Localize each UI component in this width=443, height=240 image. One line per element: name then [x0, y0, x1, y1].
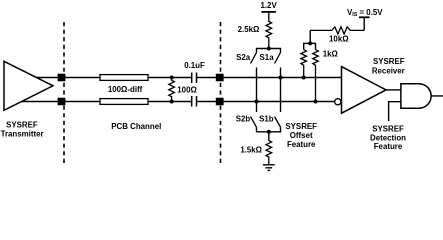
svg-text:100Ω-diff: 100Ω-diff — [108, 85, 143, 94]
switch S1a blade — [275, 53, 281, 64]
junction dot 1k left on top line — [302, 76, 306, 80]
label S2b — [236, 115, 251, 124]
label SYSREF Receiver — [372, 57, 405, 76]
svg-text:1.2V: 1.2V — [260, 1, 277, 10]
junction dot bottom bar — [267, 130, 271, 134]
wire receiver output to AND gate — [386, 89, 401, 91]
junction dot 100ohm top — [170, 76, 174, 80]
wire bottom signal line — [21, 101, 335, 103]
label SYSREF Transmitter — [1, 120, 44, 138]
label S1b — [259, 115, 274, 124]
wire S2 column — [256, 68, 258, 113]
junction dot 100ohm bottom — [170, 100, 174, 104]
power supply 1.2V — [260, 1, 277, 19]
junction dot 1k bar — [308, 41, 312, 45]
node port square RX- — [216, 98, 224, 106]
node port square TX+ — [58, 74, 66, 82]
dashed boundary line left — [63, 22, 65, 163]
value label 100ohm — [177, 86, 197, 95]
svg-text:Receiver: Receiver — [372, 66, 405, 75]
junction dot S1 on top line — [279, 76, 283, 80]
svg-text:PCB Channel: PCB Channel — [111, 122, 161, 131]
junction dot S2 on bottom line — [255, 100, 259, 104]
resistor 100ohm-diff top (box) — [100, 75, 148, 81]
svg-text:1kΩ: 1kΩ — [323, 50, 338, 59]
node port square RX+ — [216, 74, 224, 82]
svg-text:1.5kΩ: 1.5kΩ — [240, 145, 262, 154]
AND gate SYSREF detection — [401, 84, 431, 109]
capacitor 0.1uF bottom — [192, 96, 197, 107]
dashed boundary line right — [220, 22, 222, 163]
svg-text:SYSREF: SYSREF — [373, 57, 405, 66]
svg-text:Feature: Feature — [374, 142, 403, 151]
value label 0.1uF — [184, 61, 205, 70]
junction dot 1k right on bottom line — [314, 100, 318, 104]
value label 10k — [329, 35, 349, 44]
label PCB Channel — [111, 122, 161, 131]
label SYSREF Offset Feature — [285, 122, 317, 149]
value label 2.5k — [238, 25, 260, 34]
svg-text:Offset: Offset — [290, 131, 313, 140]
svg-text:SYSREF: SYSREF — [6, 120, 38, 129]
wire top signal line — [36, 77, 342, 79]
resistor 1k left (vertical zigzag) — [301, 50, 307, 78]
svg-text:S1a: S1a — [260, 53, 275, 62]
svg-text:S2b: S2b — [236, 115, 251, 124]
wire S1 column — [280, 68, 282, 113]
switch S1b blade — [275, 117, 281, 128]
resistor 1k right (vertical zigzag) — [313, 50, 319, 102]
junction dot top bar — [267, 47, 271, 51]
svg-text:0.1uF: 0.1uF — [184, 61, 205, 70]
switch S2b blade — [251, 117, 257, 128]
wire switch bottom bar — [257, 127, 281, 139]
wire AND gate output — [431, 95, 443, 97]
ground — [263, 165, 275, 171]
wire switch top bar — [257, 48, 281, 53]
svg-text:100Ω: 100Ω — [177, 86, 197, 95]
resistor 2.5k (vertical zigzag) — [266, 19, 272, 48]
svg-text:Transmitter: Transmitter — [1, 129, 44, 138]
resistor 10k (horizontal zigzag) — [310, 27, 364, 34]
svg-text:Feature: Feature — [287, 140, 316, 149]
svg-text:S2a: S2a — [236, 53, 251, 62]
value label 1k — [323, 50, 338, 59]
svg-text:10kΩ: 10kΩ — [329, 35, 349, 44]
svg-text:2.5kΩ: 2.5kΩ — [238, 25, 260, 34]
power supply Vis=0.5V — [347, 8, 383, 31]
svg-text:Detection: Detection — [370, 133, 406, 142]
resistor 100ohm termination (vertical zigzag) — [169, 78, 175, 102]
label S2a — [236, 53, 251, 62]
svg-text:SYSREF: SYSREF — [372, 124, 404, 133]
wire AND gate lower input — [389, 102, 401, 121]
op-amp SYSREF transmitter — [4, 61, 53, 110]
label S1a — [260, 53, 275, 62]
label SYSREF Detection Feature — [370, 124, 406, 151]
svg-text:SYSREF: SYSREF — [285, 122, 317, 131]
resistor 100ohm-diff bottom (box) — [100, 99, 148, 105]
switch S2a blade — [251, 53, 257, 64]
svg-text:VIS = 0.5V: VIS = 0.5V — [347, 8, 383, 18]
value label 1.5k — [240, 145, 262, 154]
node port square TX- — [58, 98, 66, 106]
resistor 1.5k (vertical zigzag) — [266, 139, 272, 165]
wire 1k top bar — [304, 30, 316, 49]
inverting input bubble — [335, 99, 341, 105]
op-amp SYSREF receiver — [342, 67, 387, 114]
capacitor 0.1uF top — [192, 73, 197, 84]
svg-text:S1b: S1b — [259, 115, 274, 124]
value label 100ohm-diff — [108, 85, 143, 94]
